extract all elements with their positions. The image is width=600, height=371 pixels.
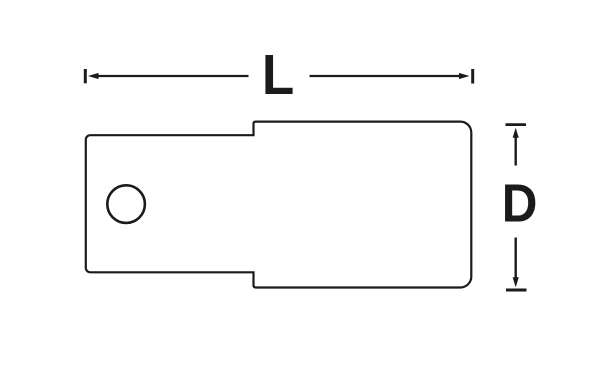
dimension D: top extension tick <box>506 123 527 126</box>
dimension L: right arrowhead <box>459 73 470 79</box>
dimension D: lower line segment <box>515 238 517 279</box>
dimension D: up arrowhead <box>513 128 519 138</box>
dimension L: right extension tick <box>471 69 474 84</box>
hole <box>107 185 145 223</box>
dimension L: left arrowhead <box>88 73 99 79</box>
dimension D: bottom extension tick <box>506 289 527 292</box>
svg-text:D: D <box>502 172 538 233</box>
dimension D: down arrowhead <box>513 277 519 287</box>
dimension D: upper line segment <box>515 137 517 166</box>
dimension L: right line segment <box>310 75 461 77</box>
part outline (tang + body) <box>86 122 472 288</box>
dimension L: left line segment <box>98 75 249 77</box>
svg-text:L: L <box>262 42 294 106</box>
dimension L: left extension tick <box>84 69 87 83</box>
